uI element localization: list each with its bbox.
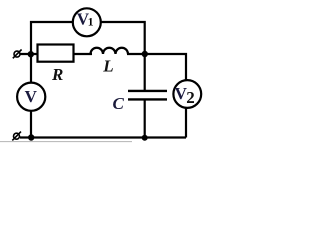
terminal upper input: [13, 50, 22, 59]
node junction dot upper-right: [142, 51, 148, 57]
voltmeter V circle: [17, 83, 45, 111]
resistor R box: [38, 45, 74, 62]
svg-text:2: 2: [186, 88, 195, 107]
wire L to V2 corner: [127, 54, 186, 95]
wire main row: [20, 53, 92, 55]
wire left rail: [30, 54, 32, 138]
terminal lower input: [12, 132, 21, 141]
node junction dot upper-left: [28, 51, 34, 57]
wire top rail: [31, 22, 145, 54]
voltmeter V2 circle: [173, 80, 201, 108]
svg-text:V: V: [25, 87, 38, 106]
svg-text:R: R: [51, 65, 63, 84]
inductor L: [91, 48, 129, 54]
voltmeter V1 circle: [73, 8, 101, 36]
capacitor C top plate: [128, 90, 167, 92]
svg-text:L: L: [102, 57, 113, 76]
grey baseline: [0, 141, 132, 143]
node junction dot lower-left: [28, 134, 34, 140]
wire bottom rail: [20, 136, 186, 138]
svg-text:1: 1: [88, 17, 94, 29]
wire capacitor to bottom rail: [144, 100, 146, 138]
svg-text:C: C: [113, 94, 125, 113]
node junction dot lower-right: [142, 135, 148, 141]
wire V2 bottom: [185, 95, 187, 138]
capacitor C bottom plate: [128, 98, 167, 100]
wire capacitor branch: [144, 54, 146, 90]
